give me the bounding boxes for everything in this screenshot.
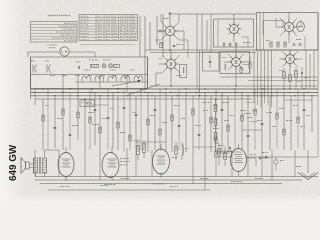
resistor on drop x216 (215, 137, 217, 143)
resistor on drop x118 (117, 122, 119, 128)
wire drop x63 (62, 89, 64, 150)
wire bundle vertical x257.5 (257, 50, 259, 105)
wire (170, 69, 172, 86)
value label x224 y120 (224, 119, 225, 122)
coil label x112 (112, 74, 114, 77)
wire drop x166 (165, 92, 167, 150)
wire drop x255 (254, 89, 256, 150)
V1b pin wires (162, 55, 168, 61)
wire top bus y14 (168, 13, 256, 15)
node bus-C x272 (271, 95, 272, 96)
resistor on drop x211 (210, 117, 212, 123)
wire bundle vertical x254 (253, 50, 255, 103)
wire drop x118 (117, 96, 119, 150)
scale lamp LP1 (102, 64, 106, 68)
scale lamp box divider (31, 74, 148, 76)
node bus-A x141 (140, 88, 141, 89)
resistor R20 (90, 64, 99, 67)
bottom bus 2 (35, 179, 302, 181)
node bus-A x235 (234, 88, 235, 89)
bottom bus 3 (40, 183, 282, 185)
IF can frame (214, 19, 254, 47)
node bus-A x205 (204, 88, 205, 89)
wire bottom vertical x127 (126, 148, 128, 180)
value label x244 y113 (244, 112, 245, 115)
wire drop x186 (185, 92, 187, 152)
wire drop x205 (204, 92, 206, 150)
node bus-B x171 (170, 92, 172, 94)
node bus-C x312 (311, 95, 312, 96)
node bus-B x118 (117, 92, 119, 94)
label TA (47, 44, 48, 47)
wire V1 pin (175, 30, 184, 32)
wire V3 top (288, 13, 290, 23)
wire drop x242 (241, 92, 243, 150)
output IF frame (257, 13, 319, 51)
table T1 row text (64, 23, 67, 24)
wire drop x100 (99, 96, 101, 152)
wire right frame vertical x310 (309, 54, 311, 89)
wire bottom vertical x100 (99, 152, 101, 180)
label under V5 (104, 183, 107, 186)
wire drop x43 (42, 99, 44, 150)
wire drop x172 (171, 96, 173, 152)
wire V3 bottom (288, 32, 290, 43)
value label x218 y145 (218, 144, 220, 147)
coil label x88 (88, 74, 90, 77)
node bus-C x248 (247, 95, 248, 96)
wire bottom vertical x59 (58, 150, 60, 177)
IF can 1b box (203, 52, 220, 71)
node bus-B x92 (91, 92, 93, 94)
wire drop x85 (84, 99, 86, 152)
band switch arrow (112, 81, 140, 86)
coil L6 (225, 64, 226, 70)
wire drop x211 (210, 96, 212, 152)
wire phono right (69, 51, 95, 53)
tuning indicator ellipse (297, 22, 305, 32)
cluster above V6: resistor R30 (137, 146, 140, 155)
wire bottom vertical x205 (204, 150, 206, 190)
node bus-A x43 (42, 88, 43, 89)
node x85 y99 (84, 98, 85, 99)
resistor on drop x63 (62, 109, 64, 115)
wire drop x216 (215, 89, 217, 152)
value label x306 y115 (306, 114, 308, 117)
node bus-A x70 (69, 88, 70, 89)
resistor on drop x284 (283, 129, 285, 135)
resistor on drop x255 (254, 109, 256, 115)
table T2 voltage chart (79, 15, 138, 41)
component row in IF frame (270, 42, 272, 47)
bottom bus labels (120, 177, 121, 180)
wire bundle vertical x271.5 (271, 50, 273, 107)
wire drop x312 (311, 96, 313, 132)
verticals between V1 and IF box (196, 14, 198, 89)
node bus-B x290 (289, 92, 291, 94)
wires right of V7 (246, 157, 257, 159)
wire right bottom horizontal (245, 156, 318, 158)
main bus A (31, 88, 319, 90)
band switch leader line (128, 84, 160, 95)
wire bundle vertical x268 (267, 50, 269, 105)
labels right of V5 (120, 157, 122, 160)
potentiometer label box (215, 151, 232, 157)
tube V5 (102, 147, 119, 181)
wire transformer top (44, 150, 46, 158)
waveband coil L3 (108, 76, 117, 79)
node bus-A x262 (261, 88, 262, 89)
wire V2 bottom (233, 33, 235, 42)
osc trimmer (209, 60, 212, 62)
cluster under V3b resistors (283, 72, 286, 79)
waveband coil L4 (121, 76, 130, 79)
node bus-C x222 (221, 95, 222, 96)
node x108 y95.8 (107, 95, 108, 96)
wire drop x148 (147, 92, 149, 152)
cluster above V6: resistor R31 (143, 144, 146, 153)
resistor on drop x78 (77, 112, 79, 118)
node bus-C x199.5 (199, 95, 200, 96)
node bus-C x127 (126, 95, 127, 96)
wire coil common (75, 81, 148, 83)
waveband coil L1 (82, 76, 91, 79)
main bus D (35, 98, 252, 100)
value label x102 y118 (102, 117, 103, 120)
wire drop x262 (261, 92, 263, 148)
wire drop x228 (227, 96, 229, 150)
grid cap C5 (159, 30, 161, 33)
capacitor on drop x155 (154, 108, 157, 110)
tube V2 UBF11 IF (230, 25, 239, 34)
wire (94, 52, 96, 57)
wire drop x90 (89, 89, 91, 150)
wire right frame vertical x318 (317, 13, 319, 90)
node x171 y86 (170, 85, 171, 86)
speckle noise dots (159, 111, 162, 114)
wire bundle vertical x261 (260, 50, 262, 107)
wire drop x70 (69, 92, 71, 150)
table T2 cell text (81, 16, 83, 17)
capacitor on drop x124 (123, 106, 126, 108)
value label x57 y118 (57, 117, 59, 120)
tube V1 UCH11 mixer (165, 26, 174, 35)
wires above V6 (137, 142, 139, 146)
node x290 y89 (289, 88, 290, 89)
value label x72 y125 (72, 124, 75, 127)
node bus-B x236 (235, 92, 237, 94)
resistor on drop x160 (159, 129, 161, 135)
value label x92 y124 (92, 123, 94, 126)
wire bundle vertical x264.5 (264, 50, 266, 103)
resistor R32 (175, 146, 178, 154)
wire to ground (307, 150, 309, 170)
node bus-A x92 (91, 88, 92, 89)
wire bottom left vert (34, 150, 36, 177)
capacitor on drop x108 (107, 116, 110, 118)
wire vertical x150 (149, 22, 151, 50)
output transformer T1 secondary winding (43, 158, 47, 173)
value label x213 y128 (213, 127, 215, 130)
electrolytic C41 (274, 160, 278, 164)
bottom bus 4 (48, 189, 210, 191)
capacitor on drop x70 (69, 133, 72, 135)
wire (170, 50, 172, 59)
chassis outline inner edge (147, 57, 149, 89)
bottom bus 1 (35, 176, 318, 178)
value label x174 y105 (174, 104, 176, 107)
value label x266 y112 (266, 111, 267, 114)
tube V7 (231, 144, 247, 176)
capacitor on drop x55 (54, 126, 57, 128)
resistor on drop x172 (171, 115, 173, 121)
capacitor on drop x304 (303, 108, 306, 110)
value label x162 y122 (162, 121, 164, 124)
value label x252 y110 (252, 109, 253, 112)
value label x300 y126 (300, 125, 303, 128)
node bus-A x284 (283, 88, 284, 89)
label under V4 (60, 185, 62, 188)
wire transformer bottom (35, 173, 37, 177)
value label x88 y112 (88, 111, 89, 114)
wires cluster (283, 68, 285, 72)
osc coil L5 (183, 67, 184, 73)
resistor on drop x100 (99, 127, 101, 133)
wire drop x136 (135, 96, 137, 150)
inner loop rect top-right frame (263, 21, 283, 36)
value label x195 y125 (195, 124, 197, 127)
wire bottom vertical x295 (294, 150, 296, 177)
tube V3 UBF11 demod (284, 22, 293, 31)
labels row y103 (203, 101, 205, 104)
coil label x100 (100, 74, 102, 77)
capacitor C31 (47, 65, 51, 73)
resistor on drop x43 (42, 115, 44, 121)
coil label x124 (124, 74, 126, 77)
wire drop x55 (54, 96, 56, 148)
value label x45 y105 (45, 104, 47, 107)
tube V4 rectifier AZ (58, 147, 74, 181)
capacitor on drop x222 (221, 108, 224, 110)
wire (289, 50, 291, 55)
wire bottom vertical x85 (84, 152, 86, 177)
wire bottom vertical x262 (261, 148, 263, 177)
scale lamp LP2 (109, 64, 113, 68)
resistor R11 in IF can (240, 67, 242, 73)
wire drop x235 (234, 89, 236, 150)
wire vertical x163 (162, 14, 164, 57)
trimmer row under IF can (223, 43, 226, 45)
capacitor on drop x95 (94, 108, 97, 110)
wire (235, 47, 237, 58)
table T1 wave-range chart (31, 22, 78, 43)
node bus-B x196 (195, 92, 197, 94)
IF can 2 frame (220, 52, 250, 74)
ground symbol (307, 170, 309, 173)
node bus-B x145 (144, 92, 146, 94)
tube V2 frame inner wires (217, 19, 219, 47)
node bus-B x264 (263, 92, 265, 94)
value label x279 y108 (279, 107, 281, 110)
node x308 y92.4 (307, 92, 308, 93)
wire vertical x140 (139, 16, 141, 57)
wire drop x78 (77, 96, 79, 140)
node bus-A x118 (117, 88, 118, 89)
V3 pin wires (280, 18, 286, 24)
wire y77 partial (220, 76, 318, 78)
value label x247 y117 (247, 116, 249, 119)
wire bottom vertical x216 (215, 152, 217, 177)
wire drop x124 (123, 89, 125, 152)
tube V2b (232, 58, 241, 67)
wire speaker to transformer (33, 158, 35, 164)
value label x110 y108 (110, 107, 111, 110)
wire vertical x145 (144, 16, 146, 89)
value label x240 y110 (240, 109, 242, 112)
wire (235, 66, 237, 86)
node bus-C x78 (77, 95, 78, 96)
coil label x75 (75, 74, 77, 77)
wire (27, 52, 29, 57)
capacitor C40 (264, 156, 266, 159)
waveband coil bank labels (84, 69, 85, 72)
wire drop x160 (159, 89, 161, 148)
chassis outline front-end (31, 57, 148, 89)
node x145 y89 (144, 88, 145, 89)
speaker (20, 158, 22, 174)
wire (289, 63, 291, 68)
value label x230 y115 (230, 114, 232, 117)
node bus-C x177 (176, 95, 177, 96)
value label x286 y120 (286, 119, 288, 122)
resistor R12 right of can (249, 62, 251, 68)
frame inner verticals (259, 13, 261, 51)
capacitor C30 (33, 65, 37, 73)
wire bottom vertical x152 (151, 150, 153, 177)
wire drop x193 (192, 96, 194, 150)
table T1 title text (48, 15, 50, 16)
wire drop x222 (221, 92, 223, 150)
wire drop x130 (129, 92, 131, 150)
wire right frame vertical x306 (305, 50, 307, 89)
value label x257 y120 (257, 119, 259, 122)
wire (242, 36, 248, 38)
V1 pin wires diag (161, 22, 167, 28)
wire right frame vertical x314 (313, 50, 315, 89)
V3b pins (282, 51, 287, 56)
wire drop x141 (140, 89, 142, 150)
capacitor on drop x136 (135, 113, 138, 115)
wire drop x277 (276, 89, 278, 148)
label under V7 (231, 180, 232, 183)
value label x250 y121 (250, 120, 252, 123)
phono pickup jack (60, 47, 69, 56)
wire V1 anode (169, 14, 171, 24)
wire (304, 36, 306, 50)
value label x181 y118 (181, 117, 183, 120)
wire drop x48 (47, 92, 49, 150)
capacitor on drop x179 (178, 124, 181, 126)
value label x150 y115 (150, 114, 153, 117)
node bus-C x152 (151, 95, 152, 96)
wire drop x304 (303, 92, 305, 150)
wire drop x113 (112, 92, 114, 148)
node bus-C x100 (99, 95, 100, 96)
node bus-B x216 (215, 92, 217, 94)
wire drop x270 (269, 96, 271, 150)
resistor on drop x242 (241, 115, 243, 121)
cluster under V1 (160, 42, 162, 48)
bus A upper partial (150, 85, 318, 87)
capacitor on drop x262 (261, 122, 264, 124)
value label x120 y132 (120, 131, 122, 134)
resistor on drop x90 (89, 117, 91, 123)
caption under table T2 (80, 44, 81, 45)
node x264 y89 (263, 88, 264, 89)
transformer core (38, 157, 40, 174)
wire bottom vertical x136 (135, 150, 137, 177)
wire V1 cathode (169, 39, 171, 51)
resistor on drop x130 (129, 135, 131, 141)
wire (317, 89, 319, 157)
resistor on drop x277 (276, 113, 278, 119)
value label x272 y126 (272, 125, 273, 128)
wire drop x284 (283, 92, 285, 150)
speaker wires (29, 163, 33, 165)
wire bottom vertical x232 (231, 150, 233, 177)
coil label x62 (62, 74, 64, 77)
wire drop x95 (94, 92, 96, 145)
heavy divider chain (214, 105, 217, 112)
value label x213 y105 (213, 104, 214, 107)
wire drop x291 (290, 96, 292, 150)
node bus-A x166 (165, 88, 166, 89)
wire x188 down (187, 40, 189, 58)
waveband coil L5 (134, 76, 143, 79)
value label x203 y110 (203, 109, 206, 112)
resistor on drop x228 (227, 125, 229, 131)
wire drop x248 (247, 96, 249, 150)
node bus-C x295 (294, 95, 295, 96)
main bus C (31, 95, 319, 97)
node bus-A x304 (303, 88, 304, 89)
value label x293 y105 (293, 104, 295, 107)
tube V1b triode section (166, 59, 175, 68)
coil label x50 (50, 74, 52, 77)
wire phono left (28, 51, 60, 53)
wire drop x108 (107, 89, 109, 150)
capacitor on drop x248 (247, 134, 250, 136)
resistor on drop x193 (192, 109, 194, 115)
wire (30, 57, 32, 99)
mid band horizontal links (85, 104, 108, 106)
main bus B (31, 91, 319, 93)
resistor on drop x298 (297, 117, 299, 123)
capacitor C32 small (77, 66, 79, 68)
node bus-C x55 (54, 95, 55, 96)
V2b pins (228, 54, 233, 59)
wire V2 top (233, 14, 235, 25)
value label x86 y103 (86, 102, 88, 105)
wires box-to-bus (34, 89, 36, 100)
wire drop x298 (297, 89, 299, 148)
tube V3b (286, 55, 295, 64)
anode rail y52.5 (150, 52, 256, 54)
wire drop x179 (178, 89, 180, 150)
capacitor on drop x199 (198, 133, 201, 135)
label under V6 (153, 183, 154, 186)
waveband coil L2 (95, 76, 104, 79)
